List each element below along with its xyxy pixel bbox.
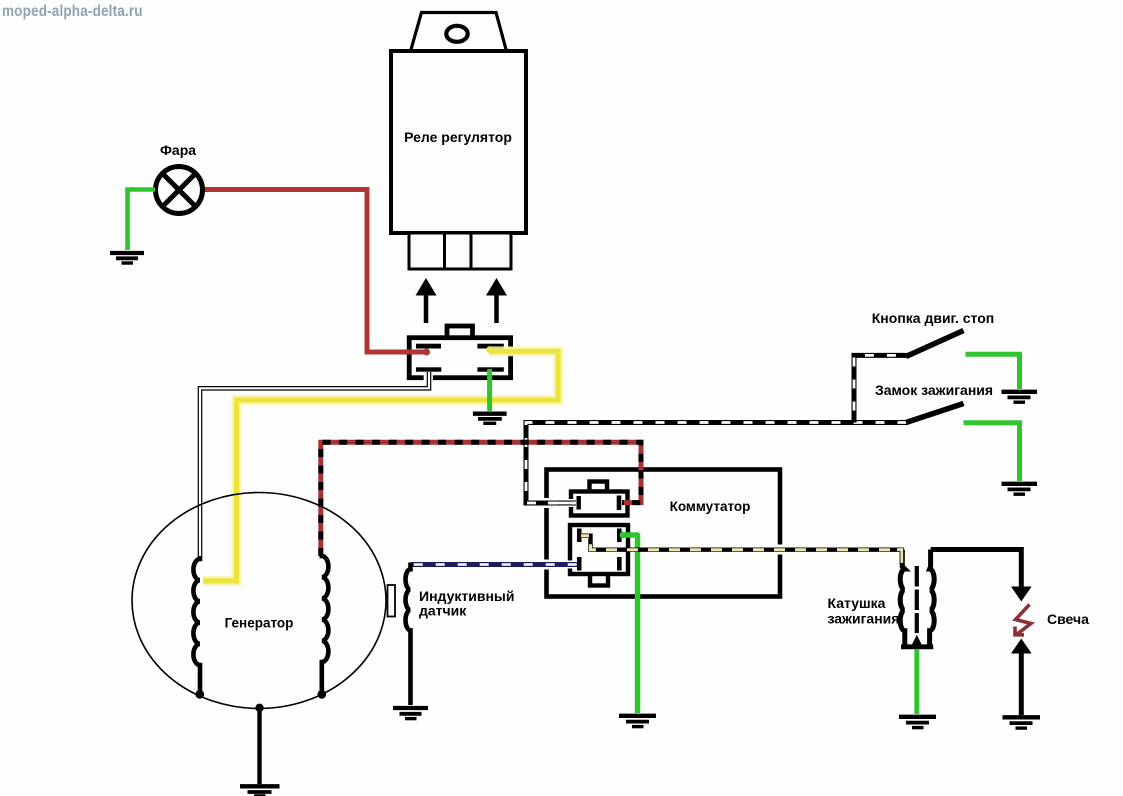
- inductive sensor bracket: [388, 585, 396, 617]
- spark symbol (Свеча): [1015, 605, 1031, 635]
- relay regulator mounting tab: [410, 13, 507, 54]
- pin 4 (bottom-right): [477, 367, 503, 371]
- arrow down at spark plug: [1011, 587, 1032, 602]
- white slot in upper connector left border: [567, 499, 575, 507]
- wire black: ignition coil to spark plug: [931, 550, 1022, 589]
- ground under commutator green wire: [619, 716, 656, 727]
- upper connector pin right: [617, 496, 622, 511]
- wire black-white dashed: stop button branch: [854, 355, 908, 422]
- relay mounting hole: [446, 26, 467, 42]
- ground under headlight: [110, 253, 144, 263]
- generator coil right bottom junction dot: [317, 690, 326, 699]
- white slot in box right border (tan wire): [776, 545, 785, 555]
- ground at stop button: [1002, 392, 1038, 402]
- wire red-black dashed: generator to commutator: [321, 442, 641, 556]
- wire green: relay connector to ground: [487, 369, 492, 411]
- lower connector pin bottom-left: [577, 557, 582, 571]
- white slot in lower connector left border: [566, 561, 574, 569]
- svg-text:зажигания: зажигания: [828, 611, 900, 627]
- relay regulator U1 box: [391, 51, 526, 233]
- wire red: headlight to relay connector: [203, 190, 427, 353]
- ignition coil right winding: [930, 550, 935, 646]
- ignition coil T1 left winding: [900, 550, 905, 646]
- ground under relay connector: [473, 414, 507, 424]
- ignition coil core (dashed): [915, 566, 919, 633]
- relay bottom tabs: [409, 233, 511, 269]
- commutator lower connector bottom notch: [590, 566, 608, 586]
- generator coil right: [322, 555, 329, 693]
- wire green: ignition lock to ground: [964, 423, 1020, 481]
- generator coil left bottom junction dot: [195, 690, 204, 699]
- generator center tap junction dot: [255, 704, 263, 712]
- svg-text:Фара: Фара: [160, 142, 196, 158]
- ignition lock switch blade: [906, 404, 964, 423]
- ground under inductive sensor: [393, 708, 428, 719]
- wire green rounded corner dot: [620, 532, 627, 539]
- commutator upper connector body: [571, 492, 628, 516]
- arrow up right: [486, 278, 507, 323]
- stop button switch blade: [906, 331, 964, 357]
- wire green: headlight to ground: [128, 190, 156, 251]
- wire yellow: relay connector to generator coil: [203, 351, 558, 581]
- svg-text:Кнопка двиг. стоп: Кнопка двиг. стоп: [872, 310, 994, 326]
- yellow wire start dot: [486, 346, 492, 352]
- white stub of dashed wire entering upper connector: [548, 502, 576, 505]
- arrow up left: [416, 278, 437, 323]
- wire green: stop button to ground: [966, 354, 1020, 389]
- ground under generator: [240, 786, 280, 796]
- pin 3 (bottom-left): [416, 367, 441, 371]
- svg-text:датчик: датчик: [419, 603, 467, 619]
- lower connector pin top-left: [577, 529, 582, 543]
- wire black-white dashed: commutator to switches: [526, 423, 908, 504]
- ground under spark plug: [1003, 717, 1041, 728]
- wire blue-white dashed: sensor to commutator: [411, 562, 577, 567]
- svg-text:Коммутатор: Коммутатор: [670, 499, 751, 514]
- pin 1 (top-left): [416, 344, 441, 349]
- relay connector X1 top notch: [447, 326, 473, 338]
- white slot in box left border (white wire): [542, 498, 551, 508]
- commutator upper connector notch: [590, 482, 608, 492]
- tan wire stub over coil left terminal: [897, 550, 902, 563]
- ignition coil bottom center peak: [911, 635, 923, 647]
- svg-text:moped-alpha-delta.ru: moped-alpha-delta.ru: [2, 3, 143, 20]
- generator ellipse: [132, 493, 386, 709]
- headlight lamp HL1: [156, 167, 203, 214]
- wire generator center tap to ground: [257, 708, 261, 784]
- svg-text:Катушка: Катушка: [828, 595, 886, 611]
- lower connector pin bottom-right: [617, 557, 622, 571]
- upper connector pin left: [577, 496, 581, 510]
- wire green: commutator to ground: [621, 535, 638, 713]
- svg-text:Замок зажигания: Замок зажигания: [875, 382, 993, 398]
- ground at ignition lock: [1002, 484, 1038, 494]
- lower connector pin top-right: [617, 529, 622, 543]
- pin 2 (top-right): [477, 344, 503, 349]
- white slot in box left border (blue wire): [542, 560, 551, 570]
- wire yellow halo: [203, 351, 558, 581]
- wire red rounded tip: [423, 349, 430, 356]
- relay connector X1 body: [409, 338, 510, 378]
- arrow up below spark: [1011, 639, 1032, 654]
- generator coil left: [193, 556, 200, 693]
- white slot in connector right border: [504, 348, 514, 356]
- svg-text:Генератор: Генератор: [225, 616, 294, 631]
- inductive sensor coil: [406, 563, 411, 706]
- wire green: ignition coil to ground: [914, 649, 919, 714]
- ignition coil bottom bar: [901, 644, 933, 649]
- commutator lower connector body: [570, 525, 628, 574]
- commutator box: [547, 470, 781, 597]
- ground under ignition coil: [899, 717, 936, 728]
- white slot in connector bottom border: [424, 374, 433, 381]
- wire tan-black dashed: commutator to ignition coil: [581, 536, 902, 565]
- wire black: spark gap to ground: [1019, 650, 1024, 715]
- svg-text:Свеча: Свеча: [1047, 611, 1089, 627]
- wire white (black outlined): relay connector to generator coil: [200, 372, 429, 557]
- svg-text:Реле регулятор: Реле регулятор: [404, 129, 512, 145]
